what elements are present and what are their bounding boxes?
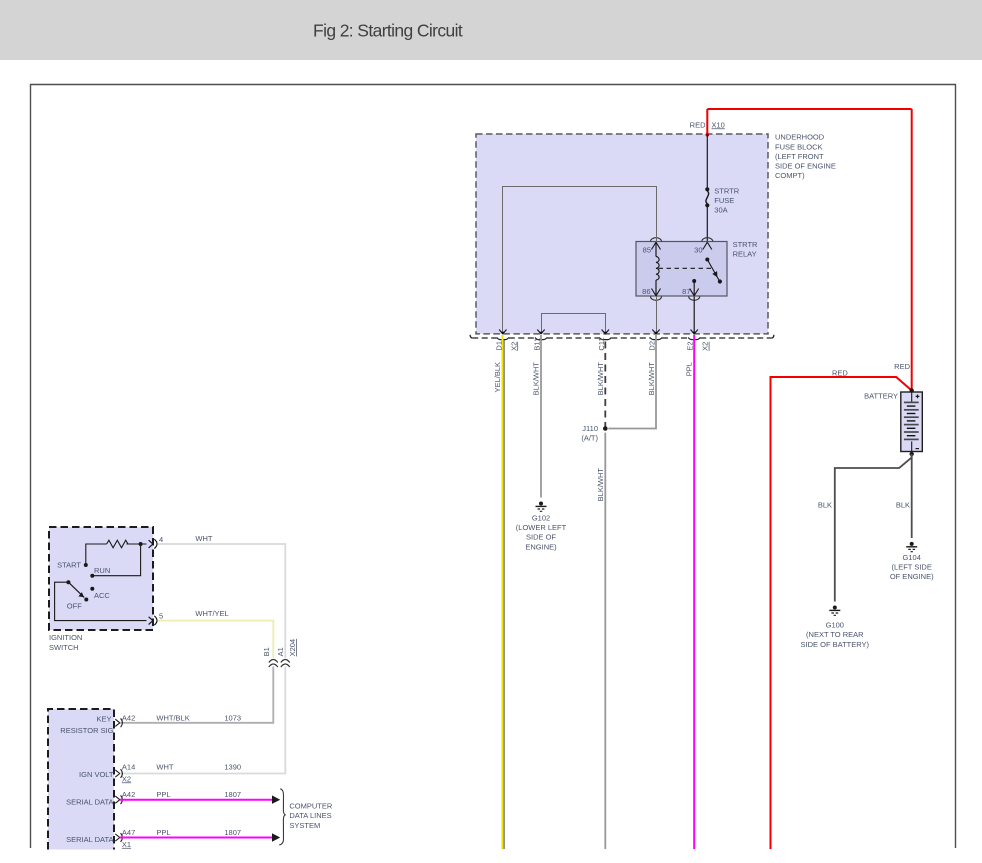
label G100 xyxy=(801,620,870,648)
svg-text:5: 5 xyxy=(159,612,163,621)
svg-text:SIDE OF: SIDE OF xyxy=(526,533,556,542)
svg-text:(LOWER LEFT: (LOWER LEFT xyxy=(516,523,567,532)
pin A14 connector xyxy=(115,769,122,778)
arrow up at pin 85 xyxy=(652,242,661,249)
svg-text:WHT/YEL: WHT/YEL xyxy=(195,609,228,618)
label G104 xyxy=(890,553,934,581)
svg-text:A1: A1 xyxy=(276,647,285,656)
wire PPL serial data row 3 xyxy=(120,799,273,801)
svg-text:X2: X2 xyxy=(509,342,518,351)
node battery negative xyxy=(910,452,914,456)
connector X204 pin B1 xyxy=(269,660,278,668)
node J110 xyxy=(603,426,608,431)
wire jumper B11 to C11 xyxy=(542,314,606,333)
arrow serial data row 3 xyxy=(272,795,280,804)
label KEY RESISTOR SIG xyxy=(60,714,113,734)
wire WHT/YEL from pin 5 xyxy=(158,621,274,658)
svg-text:SYSTEM: SYSTEM xyxy=(289,821,320,830)
pin A42 connector (key resistor) xyxy=(115,718,122,727)
label STRTR FUSE 30A xyxy=(714,187,739,215)
pin A42 connector (serial data) xyxy=(115,795,122,804)
svg-text:OF ENGINE): OF ENGINE) xyxy=(890,572,934,581)
svg-text:IGN VOLT: IGN VOLT xyxy=(79,770,114,779)
svg-text:BLK/WHT: BLK/WHT xyxy=(596,468,605,502)
svg-text:X1: X1 xyxy=(122,840,131,849)
pin 86 bump xyxy=(651,297,662,301)
svg-text:KEY: KEY xyxy=(96,714,111,723)
svg-text:BLK/WHT: BLK/WHT xyxy=(647,362,656,396)
svg-text:(A/T): (A/T) xyxy=(581,434,598,443)
switch arm to OFF xyxy=(68,582,84,597)
svg-text:SERIAL DATA: SERIAL DATA xyxy=(66,835,113,844)
underhood fuse block box xyxy=(476,134,768,334)
svg-text:BLK: BLK xyxy=(896,501,910,510)
svg-text:SERIAL DATA: SERIAL DATA xyxy=(66,797,113,806)
svg-text:G102: G102 xyxy=(532,513,550,522)
pin 87 bump xyxy=(689,297,700,301)
node ACC xyxy=(90,587,94,591)
relay coil xyxy=(656,242,659,296)
svg-text:G100: G100 xyxy=(826,620,844,629)
wire pivot to pin 5 xyxy=(55,582,147,620)
svg-text:1390: 1390 xyxy=(224,763,241,772)
arrow up at pin 30 xyxy=(703,242,712,249)
bump at E2 xyxy=(688,337,700,339)
arrow down at E2 xyxy=(691,330,698,334)
wire RED right vertical to battery xyxy=(911,109,913,391)
svg-text:FUSE: FUSE xyxy=(714,196,734,205)
svg-text:J110: J110 xyxy=(582,424,598,433)
svg-text:START: START xyxy=(57,560,81,569)
brace computer data lines xyxy=(279,789,285,845)
bump at C11 xyxy=(599,337,611,339)
svg-text:RED: RED xyxy=(832,368,848,377)
node battery positive xyxy=(910,388,914,392)
pin A47 connector xyxy=(115,833,122,842)
relay actuation dashed link xyxy=(659,267,712,269)
resistor in ignition switch xyxy=(86,540,147,565)
svg-text:1073: 1073 xyxy=(224,714,241,723)
svg-text:RED: RED xyxy=(894,362,910,371)
relay switch contact 87 end dot xyxy=(718,279,722,283)
wire BLK/WHT from B11 xyxy=(540,335,542,498)
svg-text:ACC: ACC xyxy=(94,591,110,600)
node X10 junction dot xyxy=(706,133,710,137)
svg-text:SIDE OF BATTERY): SIDE OF BATTERY) xyxy=(801,640,870,649)
svg-text:(LEFT SIDE: (LEFT SIDE xyxy=(892,563,932,572)
svg-text:BLK: BLK xyxy=(818,501,832,510)
wire RED battery feed horizontal xyxy=(771,377,912,849)
svg-text:RESISTOR SIG: RESISTOR SIG xyxy=(60,726,113,735)
wire BLK/WHT below J110 xyxy=(604,433,606,849)
svg-text:85: 85 xyxy=(643,246,651,255)
pin 87 junction dot xyxy=(692,279,696,283)
underhood fuse block label xyxy=(775,133,836,180)
svg-text:PPL: PPL xyxy=(156,828,170,837)
ground G104 xyxy=(906,542,917,552)
wire relay 87 to E2 exit xyxy=(693,297,695,333)
svg-text:UNDERHOOD: UNDERHOOD xyxy=(775,133,825,142)
svg-text:PPL: PPL xyxy=(685,362,694,376)
wire pin 87 internal xyxy=(693,281,695,296)
label COMPUTER DATA LINES SYSTEM xyxy=(289,801,333,830)
bump at D2 xyxy=(650,337,662,339)
relay switch contact 30 xyxy=(705,258,709,262)
label G102 xyxy=(516,513,567,551)
bump at B11 xyxy=(535,337,547,339)
label IGNITION SWITCH xyxy=(49,633,82,652)
header bar xyxy=(0,0,982,60)
svg-text:RELAY: RELAY xyxy=(733,250,757,259)
ignition switch box xyxy=(49,527,153,630)
svg-text:YEL/BLK: YEL/BLK xyxy=(493,362,502,392)
svg-text:WHT: WHT xyxy=(156,763,173,772)
svg-text:4: 4 xyxy=(159,535,163,544)
svg-text:ENGINE): ENGINE) xyxy=(525,542,557,551)
connector X204 pin A1 xyxy=(281,660,290,668)
svg-text:FUSE BLOCK: FUSE BLOCK xyxy=(775,142,823,151)
wire WHT from A1 down xyxy=(120,667,285,774)
svg-text:1807: 1807 xyxy=(224,790,241,799)
node OFF xyxy=(84,598,88,602)
svg-text:A42: A42 xyxy=(122,790,135,799)
connector strip under fuse block xyxy=(470,335,774,338)
svg-text:STRTR: STRTR xyxy=(714,187,739,196)
arrow down at pin 86 xyxy=(652,289,661,296)
svg-text:RED: RED xyxy=(690,120,706,129)
svg-text:COMPUTER: COMPUTER xyxy=(289,801,333,810)
arrow down at D2 xyxy=(652,330,659,334)
node RUN xyxy=(90,574,94,578)
wire fuse feed xyxy=(706,135,708,188)
arrow down at D1 xyxy=(499,330,506,334)
svg-text:OFF: OFF xyxy=(67,602,82,611)
relay switch arm xyxy=(707,260,719,282)
svg-text:BATTERY: BATTERY xyxy=(864,391,898,400)
svg-text:BLK/WHT: BLK/WHT xyxy=(596,362,605,396)
svg-text:STRTR: STRTR xyxy=(733,240,758,249)
svg-text:B1: B1 xyxy=(262,647,271,656)
svg-text:30: 30 xyxy=(694,246,702,255)
wire RED X10 vertical feed xyxy=(706,109,708,135)
arrow down at B11 xyxy=(537,330,544,334)
wire WHT/BLK from B1 down xyxy=(120,667,273,723)
pin 5 connector xyxy=(149,616,157,625)
wire relay 85 to D1 exit xyxy=(503,187,657,333)
wire BLK/WHT from D2 xyxy=(608,335,656,429)
svg-text:SWITCH: SWITCH xyxy=(49,643,79,652)
svg-text:WHT: WHT xyxy=(195,534,212,543)
svg-text:DATA LINES: DATA LINES xyxy=(289,811,331,820)
pin 85 bump xyxy=(651,238,662,242)
wire fuse to relay pin 30 xyxy=(706,205,708,259)
relay STRTR RELAY box xyxy=(636,242,727,297)
svg-text:1807: 1807 xyxy=(224,828,241,837)
arrow down at pin 87 xyxy=(690,289,699,296)
svg-text:86: 86 xyxy=(642,287,650,296)
svg-text:(LEFT FRONT: (LEFT FRONT xyxy=(775,152,824,161)
node START xyxy=(84,563,88,567)
battery xyxy=(901,392,923,452)
arrow down at C11 xyxy=(602,330,609,334)
svg-text:SIDE OF ENGINE: SIDE OF ENGINE xyxy=(775,162,836,171)
svg-text:X204: X204 xyxy=(288,639,297,657)
ground G102 xyxy=(536,502,547,512)
svg-text:WHT/BLK: WHT/BLK xyxy=(156,714,189,723)
wire RUN to junction xyxy=(92,544,140,576)
svg-text:G104: G104 xyxy=(903,553,921,562)
arrow serial data row 4 xyxy=(272,833,280,842)
svg-text:BLK/WHT: BLK/WHT xyxy=(532,362,541,396)
svg-text:A47: A47 xyxy=(122,828,135,837)
wire BLK/WHT dashed from C11 to J110 xyxy=(604,342,606,429)
svg-text:X10: X10 xyxy=(712,120,725,129)
wire RED top horizontal xyxy=(707,108,911,110)
wire PPL from E2 xyxy=(693,335,695,849)
svg-text:A14: A14 xyxy=(122,763,135,772)
svg-text:RUN: RUN xyxy=(94,566,110,575)
svg-text:87: 87 xyxy=(682,287,690,296)
wire BLK to G104 xyxy=(911,454,913,538)
bump at D1 xyxy=(497,337,509,339)
svg-text:COMPT): COMPT) xyxy=(775,171,805,180)
svg-text:IGNITION: IGNITION xyxy=(49,633,82,642)
ground G100 xyxy=(829,606,840,616)
svg-text:A42: A42 xyxy=(122,714,135,723)
label STRTR RELAY xyxy=(733,240,758,258)
PCM box xyxy=(48,709,114,850)
wire WHT from pin 4 xyxy=(158,544,286,658)
pin 4 connector xyxy=(149,539,157,548)
svg-text:30A: 30A xyxy=(714,205,727,214)
node switch pivot xyxy=(66,580,70,584)
svg-text:Fig 2: Starting Circuit: Fig 2: Starting Circuit xyxy=(313,21,463,41)
svg-text:X2: X2 xyxy=(122,774,131,783)
svg-text:X2: X2 xyxy=(701,342,710,351)
wire relay 86 to D2 exit xyxy=(656,297,658,333)
wire PPL serial data row 4 xyxy=(120,837,273,839)
pin 30 bump xyxy=(702,238,713,242)
svg-text:(NEXT TO REAR: (NEXT TO REAR xyxy=(806,630,864,639)
wire BLK to G100 xyxy=(835,454,912,602)
svg-text:PPL: PPL xyxy=(156,790,170,799)
wire YEL/BLK from D1 xyxy=(502,335,504,849)
node junction dot xyxy=(139,542,143,546)
fuse STRTR FUSE 30A xyxy=(705,187,709,207)
